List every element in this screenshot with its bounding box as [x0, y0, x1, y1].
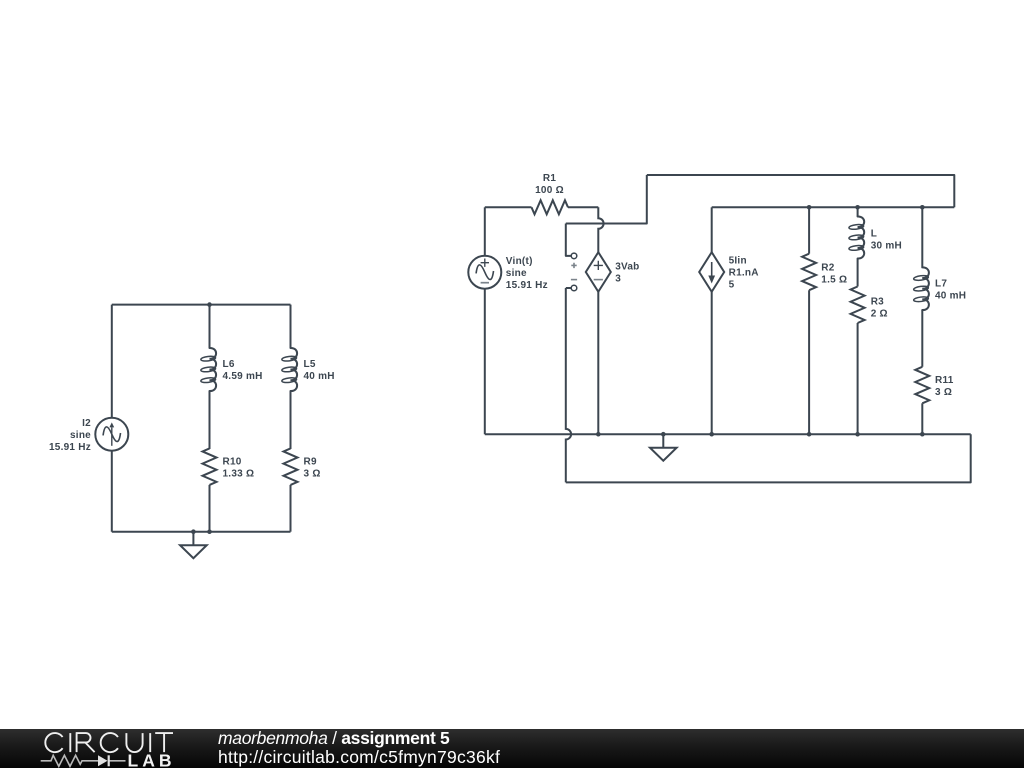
sense terminal a [566, 224, 571, 256]
node [191, 529, 196, 534]
wire [112, 304, 291, 306]
wire [857, 259, 859, 287]
node [807, 432, 812, 437]
svg-text:R11: R11 [935, 375, 954, 386]
svg-text:5Iin: 5Iin [729, 256, 747, 267]
svg-text:R1: R1 [543, 173, 556, 184]
wire [711, 292, 713, 434]
wire [857, 323, 859, 434]
node [661, 432, 666, 437]
svg-text:40 mH: 40 mH [935, 291, 966, 302]
node [207, 529, 212, 534]
resistor R9 [284, 448, 298, 485]
svg-text:3 Ω: 3 Ω [935, 387, 952, 398]
wire [711, 207, 713, 252]
svg-text:LAB: LAB [128, 750, 176, 768]
wire [921, 403, 923, 434]
svg-text:1.33 Ω: 1.33 Ω [223, 469, 255, 480]
CircuitLab logo text [45, 733, 173, 752]
node [855, 205, 860, 210]
svg-text:2 Ω: 2 Ω [871, 309, 888, 320]
wire [808, 207, 810, 253]
resistor R10 [203, 448, 217, 485]
node [709, 432, 714, 437]
node [920, 205, 925, 210]
wire top rail [647, 175, 955, 207]
inductor L5 [291, 348, 298, 391]
svg-text:L: L [871, 229, 877, 240]
svg-text:15.91 Hz: 15.91 Hz [49, 442, 91, 453]
wire [290, 305, 292, 348]
voltage source Vin [484, 207, 486, 255]
current source I2 [95, 418, 128, 451]
wire bottom rail [485, 433, 971, 435]
svg-text:R9: R9 [304, 457, 317, 468]
inductor L7 [922, 267, 929, 310]
wire [566, 434, 971, 482]
wire [209, 391, 211, 449]
svg-text:3: 3 [615, 274, 621, 285]
wire [485, 206, 532, 208]
svg-text:3Vab: 3Vab [615, 262, 639, 273]
wire [209, 305, 211, 348]
wire [111, 451, 113, 532]
svg-text:R3: R3 [871, 297, 884, 308]
resistor R2 [802, 254, 816, 291]
svg-text:R1.nA: R1.nA [729, 268, 759, 279]
wire [111, 305, 113, 418]
svg-text:40 mH: 40 mH [304, 371, 335, 382]
wire [568, 206, 598, 208]
node [207, 302, 212, 307]
wire [290, 391, 292, 449]
svg-text:3 Ω: 3 Ω [304, 469, 321, 480]
wire second rail [712, 206, 955, 208]
wire [597, 292, 599, 434]
svg-text:sine: sine [506, 268, 527, 279]
svg-text:L5: L5 [304, 359, 316, 370]
wire [808, 290, 810, 434]
node [596, 432, 601, 437]
svg-text:1.5 Ω: 1.5 Ω [821, 275, 847, 286]
wire [290, 485, 292, 532]
resistor R11 [915, 367, 929, 404]
node [855, 432, 860, 437]
logo resistor-diode glyph [41, 755, 126, 766]
svg-text:30 mH: 30 mH [871, 241, 902, 252]
wire [112, 531, 291, 533]
svg-text:L7: L7 [935, 279, 947, 290]
svg-text:R10: R10 [223, 457, 242, 468]
wire [209, 485, 211, 532]
inductor L6 [210, 348, 217, 391]
svg-text:R2: R2 [821, 263, 834, 274]
wire [484, 289, 486, 435]
svg-text:sine: sine [70, 430, 91, 441]
wire hop [566, 287, 571, 289]
svg-text:Vin(t): Vin(t) [506, 256, 533, 267]
controlled current source 5Iin [699, 252, 724, 292]
wire [921, 207, 923, 267]
wire [921, 310, 923, 367]
ground [192, 532, 194, 546]
wire [566, 175, 647, 224]
resistor R3 [851, 287, 865, 324]
svg-text:L6: L6 [223, 359, 235, 370]
svg-text:4.59 mH: 4.59 mH [223, 371, 263, 382]
svg-text:15.91 Hz: 15.91 Hz [506, 280, 548, 291]
wire hop [598, 207, 603, 252]
svg-text:I2: I2 [82, 418, 91, 429]
svg-text:100 Ω: 100 Ω [535, 185, 564, 196]
svg-text:5: 5 [729, 280, 735, 291]
inductor L [858, 216, 865, 258]
wire [857, 207, 859, 216]
resistor R1 [532, 200, 569, 214]
node [920, 432, 925, 437]
controlled voltage source 3Vab [586, 252, 611, 292]
node [807, 205, 812, 210]
ground [662, 434, 664, 448]
sense terminal b [571, 279, 577, 281]
